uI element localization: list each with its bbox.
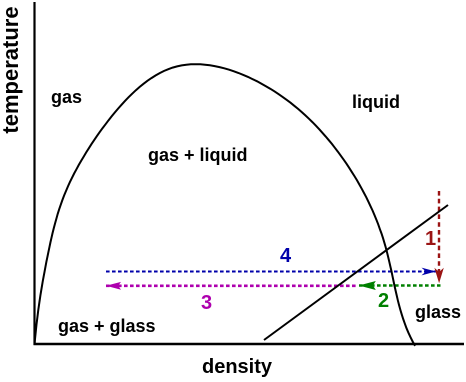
arrow 4 final dash segment xyxy=(434,271,440,273)
coexistence dome curve (gas-liquid binodal) xyxy=(35,64,416,346)
label: glass xyxy=(415,303,461,321)
glass transition line (diagonal) xyxy=(264,205,448,340)
arrow 3: magenta dashed horizontal line pointing left xyxy=(106,284,358,287)
label: 3 (magenta) xyxy=(201,293,212,313)
label: gas xyxy=(51,88,82,106)
arrow 3 head (left) xyxy=(106,282,121,290)
arrow 1: dark-red dashed vertical quench line xyxy=(438,191,440,272)
label: density (x-axis) xyxy=(202,357,272,377)
arrow 2: green dashed horizontal line pointing left xyxy=(359,284,441,287)
arrow 1 head (down) xyxy=(434,268,443,284)
arrow 4: blue dashed horizontal line pointing right xyxy=(106,271,440,273)
label: temperature (y-axis) xyxy=(0,6,22,133)
label: liquid xyxy=(352,93,400,111)
arrow 4 head (right) xyxy=(422,268,436,276)
label: gas + liquid xyxy=(148,146,248,164)
label: gas + glass xyxy=(58,317,156,335)
arrow 2 head (left) xyxy=(359,281,376,290)
label: 4 (blue) xyxy=(280,246,291,266)
label: 2 (green) xyxy=(378,291,389,311)
label: 1 (dark red) xyxy=(425,229,436,249)
x-axis (density axis) xyxy=(34,343,465,345)
y-axis (temperature axis) xyxy=(33,2,35,345)
